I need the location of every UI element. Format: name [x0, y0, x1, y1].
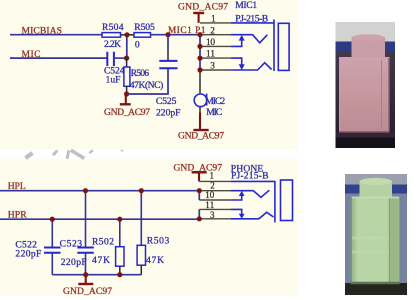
jack plug body rectangle [278, 23, 289, 70]
wire R506 bottom to C525 bottom [127, 68, 168, 94]
wire MIC [10, 57, 107, 59]
wire bus pin11-pin3 [198, 209, 200, 218]
pin 11 [200, 57, 231, 59]
connector PJ-215-B (PHONE) [231, 164, 269, 182]
wire bus pins to mic [199, 35, 201, 70]
svg-text:R503: R503 [147, 235, 170, 246]
pin 1 [200, 22, 231, 24]
node R502 bottom [117, 272, 122, 277]
svg-text:R506: R506 [131, 68, 150, 79]
svg-text:PJ-215-B: PJ-215-B [231, 170, 269, 181]
pin 3 [199, 218, 231, 220]
svg-text:MIC: MIC [206, 107, 222, 118]
resistor R504 [102, 22, 134, 50]
svg-text:1uF: 1uF [106, 74, 121, 85]
jack switch arrow up (pin10) [231, 195, 242, 200]
microphone MIC2 [194, 94, 225, 118]
resistor R503 [137, 191, 169, 275]
top schematic fragment background [0, 0, 298, 150]
jack graphic PHONE: pin1 lead to sleeve [231, 180, 275, 182]
svg-text:R504: R504 [102, 22, 124, 33]
svg-text:3: 3 [210, 210, 215, 220]
node MIC/R506 junction [124, 56, 129, 61]
wire HPR [0, 218, 199, 220]
node pin11 bus [197, 56, 202, 61]
resistor R502 [92, 219, 124, 275]
capacitor C522 [15, 219, 60, 275]
jack switch arrow down (pin11) [231, 58, 242, 65]
svg-text:11: 11 [206, 50, 215, 60]
photo 1 bottom dark band [336, 133, 396, 149]
svg-text:47K(NC): 47K(NC) [130, 80, 164, 91]
jack sleeve bar [274, 181, 276, 222]
jack switch arrow down (pin11) [231, 209, 242, 214]
svg-text:2.2K: 2.2K [104, 39, 121, 50]
svg-text:R505: R505 [134, 22, 155, 33]
ground GND_AC97 (pin1 top) [178, 1, 228, 23]
pin 2 [199, 190, 231, 192]
svg-text:220pF: 220pF [156, 108, 181, 119]
svg-text:47K: 47K [92, 255, 110, 266]
svg-text:0: 0 [135, 39, 140, 50]
node R506/C525/GND junction [124, 91, 129, 96]
pin 10 [199, 199, 231, 201]
svg-text:220pF: 220pF [15, 249, 41, 260]
connector P1 PJ-215-B (MIC1) [235, 0, 268, 24]
pin 1 [199, 180, 231, 182]
svg-text:2: 2 [210, 26, 215, 36]
resistor R506 [124, 58, 163, 94]
svg-text:10: 10 [205, 190, 215, 200]
svg-text:R502: R502 [92, 236, 114, 247]
jack tip contact with switch (pin2) [231, 190, 269, 197]
svg-text:47K: 47K [146, 255, 164, 266]
jack graphic MIC1: pin1 lead to sleeve [231, 22, 274, 24]
photo 1 jack body [339, 57, 390, 133]
jack sleeve bar [273, 20, 275, 72]
photo 2 jack body [351, 197, 400, 285]
svg-text:GND_AC97: GND_AC97 [104, 107, 150, 118]
svg-text:3: 3 [210, 62, 215, 72]
node C522/HPR [50, 217, 55, 222]
wire mic to ground [199, 106, 201, 112]
wire bottom ground rail [52, 274, 141, 276]
ground GND_AC97 (mic) [178, 130, 224, 141]
node R503/HPL [139, 188, 144, 193]
photo 1 jack cylinder [352, 37, 386, 58]
ground GND_AC97 (R506) [104, 94, 150, 118]
jack switch arrow up (pin10) [231, 40, 242, 47]
svg-text:10: 10 [206, 38, 215, 48]
pin 11 [199, 208, 231, 210]
photo 2 bottom dark band [345, 283, 407, 295]
photo 2 jack cylinder [360, 181, 393, 198]
pin 10 [200, 45, 231, 47]
wire HPL [0, 190, 199, 192]
wire bus pin2-pin10 [198, 191, 200, 200]
wire MICBIAS [10, 34, 102, 36]
resistor R505 [134, 22, 155, 50]
wire R505 to pin2 [151, 34, 201, 36]
node R502/HPR [117, 217, 122, 222]
jack plug body rectangle [281, 180, 293, 221]
svg-text:1: 1 [211, 15, 216, 25]
svg-text:MIC1: MIC1 [235, 0, 257, 11]
node C523/HPL [83, 188, 88, 193]
svg-text:11: 11 [205, 200, 214, 210]
svg-text:GND_AC97: GND_AC97 [178, 1, 228, 12]
jack ring contact with switch (pin3) [231, 63, 272, 70]
node pin2 bus [197, 32, 202, 37]
node HPR/pin3 [197, 216, 202, 221]
jack tip contact with switch (pin2) [231, 35, 267, 43]
svg-text:GND_AC97: GND_AC97 [63, 286, 112, 297]
node HPL/pin2 [197, 188, 202, 193]
svg-text:GND_AC97: GND_AC97 [178, 130, 224, 141]
svg-text:1: 1 [210, 171, 215, 181]
node pin3 bus [197, 67, 202, 72]
node C523 bottom [83, 272, 88, 277]
pin 3 [200, 69, 231, 71]
wire R504/R505 junction down to MIC node [126, 35, 128, 58]
jack ring contact with switch (pin3) [231, 212, 274, 219]
node junction R504/R505 [124, 32, 129, 37]
svg-text:C523: C523 [60, 239, 83, 250]
photo 2 navy band [345, 185, 407, 194]
node pin10 bus [197, 44, 202, 49]
capacitor C524 [104, 52, 127, 86]
photo 1 navy band [336, 42, 396, 52]
photo 1 gray top band [336, 22, 396, 42]
ground GND_AC97 (phone pin1) [174, 163, 223, 182]
svg-text:220pF: 220pF [61, 257, 87, 268]
capacitor C523 [60, 191, 94, 275]
ground GND_AC97 (bottom rail) [63, 275, 112, 297]
bottom schematic fragment background [0, 159, 299, 296]
watermark [26, 150, 124, 159]
svg-text:C525: C525 [156, 96, 177, 107]
svg-text:MIC2: MIC2 [205, 96, 225, 107]
photo 2 gray-blue top band [345, 174, 407, 185]
pin 2 [200, 34, 231, 36]
capacitor C525 [156, 35, 181, 119]
photo 2 base [345, 174, 407, 295]
node C525 tap [165, 32, 170, 37]
photo 1 base [336, 22, 396, 148]
